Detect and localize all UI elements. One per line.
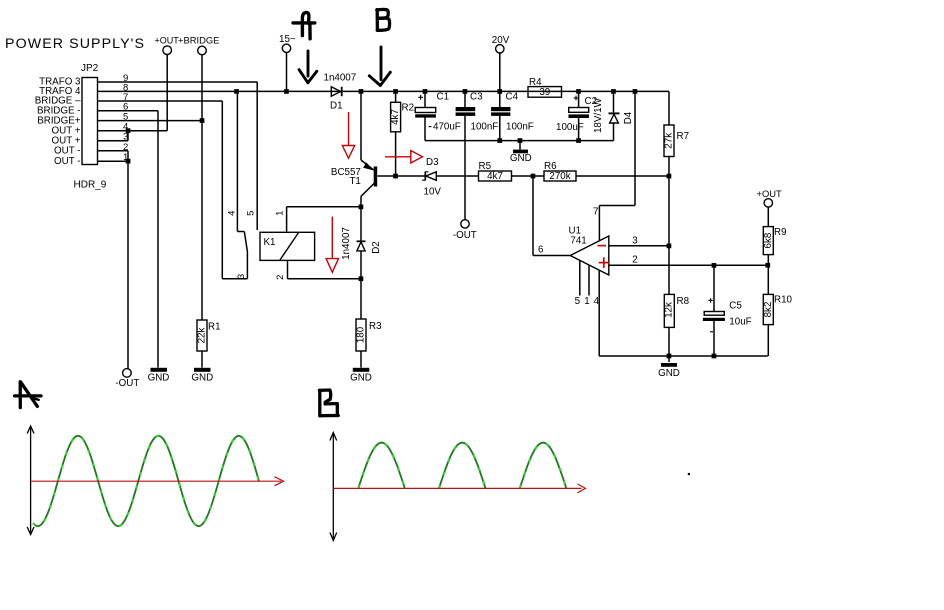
svg-text:5: 5 <box>246 211 257 216</box>
svg-text:741: 741 <box>570 236 586 247</box>
svg-text:R9: R9 <box>774 227 787 238</box>
svg-text:6: 6 <box>538 245 544 256</box>
svg-text:GND: GND <box>148 372 170 383</box>
svg-text:18V/1W: 18V/1W <box>593 97 604 133</box>
svg-text:C1: C1 <box>437 92 450 103</box>
svg-text:HDR_9: HDR_9 <box>74 180 107 191</box>
svg-text:R1: R1 <box>208 322 221 333</box>
svg-text:R7: R7 <box>677 131 690 142</box>
svg-text:12k: 12k <box>664 302 675 318</box>
svg-text:-OUT: -OUT <box>115 378 139 389</box>
svg-text:D2: D2 <box>371 241 382 254</box>
svg-text:D1: D1 <box>330 101 343 112</box>
svg-text:C4: C4 <box>506 92 519 103</box>
svg-text:GND: GND <box>510 153 532 164</box>
svg-text:470uF: 470uF <box>433 122 461 133</box>
svg-text:R3: R3 <box>369 321 382 332</box>
svg-text:GND: GND <box>350 372 372 383</box>
svg-text:D4: D4 <box>623 111 634 124</box>
svg-text:1n4007: 1n4007 <box>341 227 352 260</box>
svg-text:22k: 22k <box>197 328 208 344</box>
svg-text:1: 1 <box>584 296 589 307</box>
svg-text:2: 2 <box>632 254 637 265</box>
svg-text:100nF: 100nF <box>471 122 499 133</box>
svg-text:270k: 270k <box>549 171 570 182</box>
svg-text:1: 1 <box>123 152 128 163</box>
svg-text:C3: C3 <box>470 92 483 103</box>
svg-text:4: 4 <box>227 211 238 216</box>
svg-text:JP2: JP2 <box>81 63 99 74</box>
svg-text:15~: 15~ <box>279 34 296 45</box>
svg-text:4k7: 4k7 <box>390 109 401 125</box>
svg-text:+OUT: +OUT <box>757 188 783 199</box>
svg-text:10uF: 10uF <box>729 316 751 327</box>
svg-text:OUT -: OUT - <box>54 146 81 157</box>
svg-text:2: 2 <box>123 142 128 153</box>
svg-text:10V: 10V <box>424 186 442 197</box>
svg-text:3: 3 <box>632 235 638 246</box>
svg-text:180: 180 <box>356 326 367 343</box>
svg-text:+OUT: +OUT <box>155 36 180 46</box>
svg-text:5: 5 <box>575 296 581 307</box>
svg-text:4k7: 4k7 <box>487 171 503 182</box>
svg-text:3: 3 <box>236 274 247 279</box>
svg-text:C5: C5 <box>729 300 742 311</box>
svg-text:D3: D3 <box>426 157 439 168</box>
svg-text:R10: R10 <box>774 295 793 306</box>
svg-text:T1: T1 <box>349 176 360 187</box>
svg-text:1: 1 <box>275 211 286 216</box>
svg-text:4: 4 <box>594 296 600 307</box>
svg-text:+BRIDGE: +BRIDGE <box>178 35 219 46</box>
svg-text:100uF: 100uF <box>556 122 584 133</box>
svg-text:K1: K1 <box>264 237 276 248</box>
svg-text:20V: 20V <box>492 35 510 46</box>
svg-text:R2: R2 <box>402 103 415 114</box>
svg-text:GND: GND <box>191 372 213 383</box>
svg-text:OUT -: OUT - <box>54 156 81 167</box>
svg-text:7: 7 <box>593 207 598 218</box>
svg-text:27k: 27k <box>664 133 675 149</box>
svg-text:100nF: 100nF <box>506 122 534 133</box>
svg-text:1n4007: 1n4007 <box>324 73 357 84</box>
svg-text:POWER SUPPLY'S: POWER SUPPLY'S <box>5 36 145 52</box>
svg-text:-OUT: -OUT <box>453 230 477 241</box>
svg-text:GND: GND <box>658 368 680 379</box>
svg-text:R8: R8 <box>677 296 690 307</box>
svg-text:6k8: 6k8 <box>763 232 774 248</box>
svg-text:8k2: 8k2 <box>763 302 774 318</box>
svg-text:2: 2 <box>275 275 286 280</box>
svg-text:39: 39 <box>539 87 550 98</box>
